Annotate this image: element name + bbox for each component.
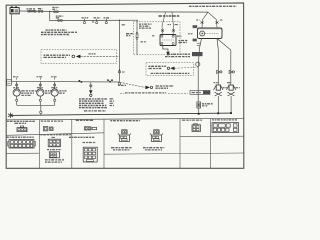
wire name plate [192,52,203,56]
route label ( ) WITH ENGINE CONTROL SYSTEM [125,92,166,94]
small connector circle [92,21,94,23]
wire: battery feed to top-right [19,11,208,12]
column divider 3 [103,119,105,168]
fuse MAIN 120A [28,10,37,12]
label OAD [188,33,193,35]
joint connector 2E 2T [105,19,107,24]
horn LOW [226,85,235,113]
label HORN 15A (joint box fuse) [126,33,134,35]
label 2E 2T [104,17,111,19]
fuse ROOM 15A [197,102,201,114]
label FUSE BLOCK [83,142,97,144]
wire legend line 2 [139,25,150,27]
bus inline connector B [107,79,113,82]
label F-03 [51,87,57,89]
title text: ( ) WITH ENGINE CONTROL SYSTEM [189,5,237,7]
left edge connector [7,80,12,86]
box text line 2 [151,72,190,74]
panel2 connector C04 [48,139,60,147]
horn switch text line 1 [44,54,71,56]
box text line 1 [149,65,167,67]
row divider bottom left [6,152,39,154]
continuation arrow down (to security) [89,82,93,97]
engine-control alternate dashed box [146,63,194,76]
wire: battery left drop [11,14,13,82]
label B 2B [122,24,127,26]
panel2 connectors C03 [43,127,53,131]
dashed route: with engine control system [120,91,188,94]
main ground line [11,113,233,115]
label 2E 2G [94,17,101,19]
horn at x=54.7 [51,78,58,106]
wire: drop to ground line [40,105,42,111]
label HAZARD 15A [56,15,63,17]
NOTE text line 2 [41,31,77,33]
border frame [6,3,244,168]
panel4 horn LOW inner view [118,130,131,142]
horn caption [59,90,66,92]
legend row 4 [79,105,107,107]
panel3 header [76,119,94,121]
NOTE text line 3 [41,34,70,36]
connector circle [196,62,200,66]
joint box dashed outline [134,22,181,55]
panel1 connector C01 [17,126,27,132]
battery [10,6,19,13]
wire: diagonal to relay pin 1 [162,12,166,34]
connector pair right 2 [229,70,234,73]
table top line [6,118,243,120]
wire legend line 1 [139,23,152,25]
panel5 header [182,119,202,121]
wire: dashed link to relay unit vertical [175,67,199,68]
horn at x=40.3 [37,78,44,106]
wire: bus continuation to horn switch arrow [120,82,146,87]
horn caption [45,90,52,92]
U2 label plate upper [193,25,198,28]
bus junction connector [118,82,120,84]
label MAIN 120A [27,8,36,10]
relay unit U2 [198,28,223,39]
wire: diagonal to relay pin 2 [172,12,174,34]
label 1F [175,24,179,26]
horn feed bus [12,80,120,83]
inline connector on battery wire [38,9,43,12]
connector on vertical feed [118,69,120,73]
panel1 row2 header [7,136,35,138]
wire: diagonal to U2 pin 1 [202,12,208,28]
ground node [198,113,200,115]
ground node high [217,112,219,114]
page background [0,0,250,177]
plate text [192,92,202,94]
wire legend line 3 [139,27,151,29]
joint connector 2E 2F [83,19,85,24]
horn HIGH [214,85,223,113]
arrow label TO HORN SWITCH [168,53,190,55]
wire: lower branch [50,11,138,20]
horn caption [21,90,36,92]
label 1-22 [51,76,57,78]
ground joint circle [40,111,42,113]
label 1M [168,24,172,26]
connector + arrow in dashed box [167,67,174,71]
legend row 3 [79,102,104,104]
continuation arrow down (to horn switch) [166,52,169,56]
panel2 connector C05 [49,152,59,158]
U2 label plate lower [193,39,197,42]
wire: U2 left pin down [198,39,201,102]
panel1 header [7,120,36,122]
bus inline connector A [79,80,83,83]
wire: relay output to arrow [163,46,168,52]
panel2 sub text [47,149,62,151]
connector pair right 1 [217,70,222,73]
wire: horn switch to vertical feed [80,55,119,57]
label F-05 [227,82,231,84]
label 1-01 [38,8,43,10]
joint connector 2E 2G [96,19,98,24]
horizontal label plate [190,91,210,95]
panel2 bottom text [45,159,64,161]
label TO [118,84,126,86]
label F-02 [37,87,43,89]
panel3 row2 header [69,136,95,138]
fuse lower [58,19,63,21]
label HORN SWITCH (24-14) [156,85,175,87]
caption [143,147,164,149]
ground node low [230,112,232,114]
node: branch junction [49,11,50,12]
horn at x=16.7 [13,78,20,106]
connector ticks [197,43,201,45]
continuation arrow right (horn switch) [145,86,152,90]
horn switch contact + diode [72,55,80,59]
panel2 header [41,120,64,122]
column divider 1 [38,120,40,169]
label F-01 [13,87,19,89]
label HORN RELAY [179,40,189,42]
horn ground bus [17,104,55,106]
label 1 2E [177,35,182,37]
legend bottom line [84,110,106,112]
legend row 5 [79,107,107,109]
label ROOM 15A [202,103,214,105]
wire: U2 to horn LOW [217,39,231,85]
label B [152,35,154,37]
label HORN 15A [52,7,58,9]
NOTE text line 1 [46,29,67,31]
panel6 header [212,119,237,121]
label 2 2E [141,41,147,43]
label 1-21 [37,76,43,78]
label 1S [196,19,200,21]
row divider bottom right [104,153,244,154]
column divider 4 [179,119,181,169]
fuse upper [54,11,59,13]
panel4 header [110,120,140,122]
horn relay K1 [160,35,176,46]
column divider 5 [210,119,212,169]
caption [111,147,132,149]
connector X marks above U2 [201,22,219,24]
label (A) [52,136,56,138]
connector X marks above relay [161,30,175,32]
panel2 row2 header [40,134,71,136]
horn switch dashed box [41,50,117,64]
wire: vertical feed down to horn bus [119,20,121,81]
panel4 horn HIGH inner view [150,130,163,142]
panel1 connector grid C02 [8,140,36,149]
legend row 1 [79,98,107,100]
panel3 connectors C06 [84,127,96,130]
row divider left [6,133,104,136]
label LOW [235,87,240,89]
label 2E 2U [89,53,96,55]
label F-04 [214,82,218,84]
fuse in joint box [136,20,138,55]
row divider right upper [180,135,244,137]
label 1T [220,19,224,21]
panel6 connector C09 [212,123,239,133]
panel5 connector C08 [192,123,201,131]
label JOINT BOX (2-16) [159,15,181,17]
legend row 2 [79,100,104,102]
node: drop to horn switch feed [119,20,120,21]
column divider 2 [71,120,73,169]
label HIGH [223,87,228,89]
panel3 connector C07 [83,147,97,162]
label 2E 2F [82,17,89,19]
label 2E [122,71,126,73]
ground star [8,113,13,118]
wire: U2 to horn HIGH [217,39,218,85]
wire: diagonal to U2 pin 2 [208,12,217,28]
label 1-20 [13,76,19,78]
